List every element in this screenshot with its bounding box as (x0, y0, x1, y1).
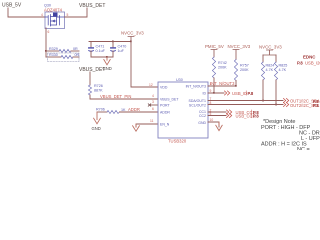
svg-text:0.1uF: 0.1uF (96, 49, 106, 53)
transistor Q30 (44, 4, 65, 29)
op-amp U30 TUSB320 body (158, 78, 208, 138)
wire R757 to INT_N net (235, 81, 237, 87)
junction C470 top (112, 41, 114, 43)
svg-text:USB_I2C1: USB_I2C1 (305, 61, 320, 66)
svg-text:VBUS_DET_PIN: VBUS_DET_PIN (100, 94, 131, 99)
svg-text:SCL/OUT2: SCL/OUT2 (189, 103, 206, 107)
svg-text:887K: 887K (94, 88, 103, 92)
svg-text:1K: 1K (121, 108, 126, 112)
wire CC2 (208, 115, 226, 117)
svg-text:AOZ4074: AOZ4074 (44, 7, 63, 12)
svg-text:P.8: P.8 (248, 91, 254, 96)
junction R824/SDA (262, 100, 264, 102)
junction R825/SCL (275, 104, 277, 106)
svg-text:P.8: P.8 (253, 113, 259, 118)
wire NVCC vertical to VDD pin (131, 42, 158, 88)
node NVCC_3V3 (power flag right) (259, 45, 282, 56)
capacitor C470 (111, 42, 127, 58)
design note text (261, 119, 320, 153)
wire R726 to VBUS_DET pin (90, 95, 158, 99)
svg-text:P.8: P.8 (313, 103, 319, 108)
node PMIC_5V (power flag) (205, 44, 224, 57)
svg-text:200K: 200K (218, 66, 227, 70)
node NVCC_3V3 (power flag over IC) (121, 31, 144, 42)
capacitor C471 (89, 42, 105, 58)
junction R757/INT (235, 85, 237, 87)
svg-text:ADDR: ADDR (160, 111, 170, 115)
wire ID (208, 92, 224, 94)
svg-text:4: 4 (152, 94, 154, 98)
svg-text:INT_N/OUT3: INT_N/OUT3 (186, 85, 206, 89)
no-connect X on PORT pin (148, 104, 158, 107)
wire Q30 bottom vertical (45, 28, 47, 57)
svg-text:3: 3 (152, 100, 154, 104)
svg-text:9: 9 (210, 89, 212, 93)
svg-text:U30: U30 (176, 78, 183, 82)
svg-text:USB_ID: USB_ID (232, 91, 247, 96)
svg-text:TUSB320: TUSB320 (168, 139, 187, 144)
svg-text:0R: 0R (73, 47, 78, 51)
ground (caps) (103, 57, 112, 71)
offpage flag OUT1/I2C_SDA (284, 99, 320, 104)
resistor R825 (274, 55, 287, 105)
svg-text:PMIC_5V: PMIC_5V (205, 44, 224, 49)
svg-text:R706: R706 (96, 108, 105, 112)
svg-text:NC =: NC = (297, 147, 310, 150)
svg-text:5: 5 (67, 13, 69, 17)
svg-text:VDD: VDD (160, 86, 168, 90)
wire VBUS_DET down to R726 (89, 72, 91, 85)
ground (EN_N) (133, 124, 140, 131)
junction at R329 tap (45, 50, 47, 52)
resistor R742 (212, 57, 226, 78)
svg-text:R330: R330 (49, 53, 58, 57)
junction caps gnd (106, 56, 108, 58)
svg-text:EDNC: EDNC (303, 55, 316, 60)
svg-text:VBUS_DET: VBUS_DET (160, 98, 179, 102)
ground (R706) (92, 112, 101, 131)
wire EN_N to ground (136, 124, 158, 127)
svg-text:NVCC_3V3: NVCC_3V3 (228, 44, 251, 49)
offpage flag USB_CC2 (227, 113, 260, 118)
offpage flag USB_CC1 (227, 110, 260, 115)
svg-text:4.7K: 4.7K (266, 68, 274, 72)
resistor R757 (234, 60, 248, 81)
svg-text:12: 12 (149, 83, 153, 87)
resistor R824 (261, 55, 274, 101)
svg-text:EN_N: EN_N (160, 123, 170, 127)
wire R742 to ID net (213, 78, 215, 93)
wire USB_5V to Q30 (8, 8, 45, 17)
junction R742/ID (213, 92, 215, 94)
node NVCC_3V3 (power flag R757) (228, 44, 251, 60)
offpage flag USB_ID (225, 91, 254, 96)
svg-text:R742: R742 (218, 61, 227, 65)
svg-text:P.8: P.8 (297, 61, 303, 66)
svg-text:1uF: 1uF (118, 49, 125, 53)
svg-text:GND: GND (198, 121, 206, 125)
svg-text:GND: GND (92, 126, 101, 131)
wire SCL/OUT2 (208, 104, 283, 106)
svg-text:R824: R824 (266, 64, 275, 68)
svg-text:200K: 200K (240, 68, 249, 72)
svg-text:6: 6 (152, 107, 154, 111)
wire Q30 out to VBUS_DET label (65, 8, 88, 17)
svg-text:4: 4 (41, 13, 43, 17)
svg-text:6: 6 (48, 30, 50, 34)
svg-text:PORT: PORT (160, 104, 171, 108)
svg-text:R825: R825 (279, 64, 288, 68)
svg-text:0R: 0R (75, 53, 80, 57)
wire GND pin to ground (208, 122, 219, 127)
svg-text:4.7K: 4.7K (279, 68, 287, 72)
ground (IC GND) (216, 122, 222, 131)
svg-text:10: 10 (210, 118, 214, 122)
svg-text:CC2: CC2 (199, 114, 206, 118)
svg-text:VBUS_DET: VBUS_DET (79, 3, 105, 9)
svg-text:INT_N/OUT3: INT_N/OUT3 (210, 81, 235, 86)
wire INT_N/OUT3 (208, 85, 236, 87)
offpage flag OUT2/I2C_SCL (284, 103, 320, 109)
wire caps bottom rail (91, 56, 113, 58)
svg-text:VBUS_DET: VBUS_DET (79, 67, 105, 73)
resistor R706 (96, 108, 158, 114)
wire SDA/OUT1 (208, 100, 283, 102)
svg-text:NVCC_3V3: NVCC_3V3 (259, 45, 282, 50)
resistor R726 (88, 84, 102, 95)
resistor R330 (DNP) (46, 53, 79, 62)
svg-text:11: 11 (150, 119, 154, 123)
junction rail/vertical (130, 41, 132, 43)
resistor R329 (46, 47, 79, 53)
svg-text:USB_5V: USB_5V (2, 3, 22, 9)
svg-text:NVCC_3V3: NVCC_3V3 (121, 31, 144, 36)
svg-text:ADDR: ADDR (128, 107, 140, 112)
wire CC1 (208, 111, 226, 113)
wire NVCC rail to caps (89, 41, 131, 43)
svg-text:R329: R329 (49, 47, 58, 51)
svg-text:ID: ID (203, 92, 207, 96)
svg-text:R757: R757 (240, 64, 249, 68)
